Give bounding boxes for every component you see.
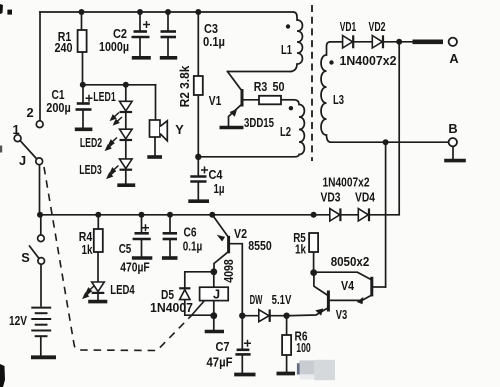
node V2 emitter	[209, 212, 215, 218]
wire C5 lower lead	[141, 240, 143, 257]
wire lower +12V rail y215 with VD3 VD4	[40, 214, 399, 216]
LED1 arrows	[111, 113, 122, 125]
svg-text:3DD15: 3DD15	[244, 115, 274, 130]
node A junction	[396, 39, 402, 45]
wire V2 collector to relay node	[214, 252, 229, 272]
svg-text:0.1µ: 0.1µ	[183, 239, 203, 254]
phase dot L3	[329, 60, 333, 64]
ground V1 emitter	[220, 126, 244, 130]
wire speaker ground lead	[154, 137, 156, 156]
svg-text:VD1: VD1	[340, 19, 357, 34]
wire R2 branch: rail down through R2 to node	[197, 12, 199, 157]
wire R4 bottom lead to LED4	[97, 252, 99, 282]
wire V2 emitter slant	[212, 215, 228, 238]
svg-text:5.1V: 5.1V	[272, 292, 292, 307]
terminal A circle	[449, 38, 457, 46]
ground speaker	[147, 155, 162, 159]
transistor V3 8050	[316, 291, 328, 315]
node relay top	[210, 268, 217, 275]
svg-text:2: 2	[26, 105, 33, 120]
transformer L3 secondary winding	[321, 42, 343, 142]
svg-text:VD2: VD2	[369, 19, 386, 34]
svg-text:1: 1	[12, 122, 19, 137]
zener DW 5.1V	[259, 310, 270, 322]
node LED chain top	[123, 82, 129, 88]
wire LED chain vertical	[125, 85, 127, 184]
svg-text:1N4007x2: 1N4007x2	[340, 53, 397, 68]
phase dot L1	[286, 24, 290, 28]
relay slash solid	[192, 294, 211, 315]
LED3	[120, 159, 133, 170]
wire LED rail y85	[83, 84, 156, 86]
wire speaker drop	[155, 85, 157, 120]
svg-text:1k: 1k	[295, 242, 307, 257]
node R4 top	[95, 212, 101, 218]
capacitor C1 200u plates	[76, 95, 93, 110]
node R2 bottom / C4	[195, 154, 201, 160]
node DW right R6	[283, 313, 289, 319]
wire R4 top lead	[97, 215, 99, 229]
svg-text:VD4: VD4	[355, 190, 376, 205]
wire C6 lower lead	[169, 240, 171, 257]
node C3 top	[165, 9, 171, 15]
svg-text:DW: DW	[250, 292, 263, 307]
ground C6	[162, 256, 178, 260]
node R5 bottom	[310, 269, 317, 276]
wire R3 right lead into L2	[281, 99, 294, 101]
node lower rail at J/S	[37, 212, 43, 218]
svg-text:47µF: 47µF	[207, 355, 233, 370]
svg-text:1N4007x2: 1N4007x2	[323, 175, 370, 190]
transistor V4 8050	[358, 277, 372, 304]
svg-text:8050x2: 8050x2	[331, 254, 370, 269]
svg-text:L2: L2	[280, 124, 291, 139]
relay coil box J	[200, 287, 229, 300]
diode VD3	[330, 208, 341, 221]
phase dot L2	[289, 106, 293, 110]
svg-text:Y: Y	[175, 122, 184, 137]
node relay bottom	[210, 312, 217, 319]
node B wire junction	[383, 139, 389, 145]
svg-text:200µ: 200µ	[46, 100, 71, 115]
transformer core dashed line	[311, 5, 313, 161]
transistor V1 3DD15	[231, 89, 243, 116]
svg-text:V1: V1	[209, 93, 222, 108]
ground LED3 chain	[117, 183, 135, 187]
resistor R3 50	[259, 96, 281, 105]
resistor R4 1k	[94, 229, 103, 252]
resistor R2 3.8k	[194, 76, 203, 95]
svg-text:100: 100	[296, 340, 311, 355]
diode VD1	[343, 35, 354, 48]
ground C5	[132, 256, 152, 260]
LED2	[120, 129, 133, 140]
svg-text:1000µ: 1000µ	[99, 39, 129, 54]
wire C6 lead	[169, 215, 171, 232]
ground C4	[188, 199, 209, 203]
switch J contact 2 circle	[36, 121, 43, 128]
wire R6 top lead	[286, 316, 288, 335]
capacitor C4 1u plates	[190, 167, 208, 182]
wire V1 base to R3	[242, 99, 259, 101]
wire C2 lead	[139, 12, 141, 31]
ground battery	[31, 355, 56, 359]
wire R1 top lead	[81, 12, 83, 30]
svg-text:12V: 12V	[9, 313, 27, 328]
svg-text:A: A	[449, 51, 458, 66]
wire V3 emitter from DW node	[287, 308, 328, 316]
wire R6 bottom lead	[286, 355, 288, 372]
diode D5 1N4007	[179, 288, 190, 299]
resistor R1 240	[78, 30, 87, 52]
wire S to battery	[40, 264, 42, 306]
wire J pole vertical down to lower rail	[39, 165, 41, 215]
resistor R6 100	[282, 335, 291, 355]
node R1 top	[79, 9, 85, 15]
svg-text:LED3: LED3	[79, 162, 102, 177]
svg-text:L3: L3	[333, 92, 344, 107]
svg-text:B: B	[448, 121, 457, 136]
wire C3 lower lead to ground	[167, 38, 169, 57]
svg-text:0.1µ: 0.1µ	[203, 34, 225, 49]
wire D5 branch top	[185, 272, 214, 287]
COMPONENTS	[291, 5, 343, 161]
node R1/C1/LED rail	[80, 82, 86, 88]
ground C3	[160, 56, 177, 60]
wire node down to V3 collector	[314, 273, 327, 295]
diode VD4	[358, 208, 369, 221]
wire battery bottom lead	[40, 337, 42, 356]
capacitor C3 0.1u plates	[161, 32, 177, 38]
svg-text:V3: V3	[336, 307, 348, 322]
svg-text:J: J	[213, 287, 220, 302]
switch J pole circle	[36, 158, 43, 165]
ground C2	[132, 56, 151, 60]
ground R6	[277, 372, 296, 376]
switch J blade	[20, 141, 37, 159]
wire A junction vertical down to VD4 line	[398, 42, 400, 215]
wire C5 lead	[141, 215, 143, 232]
wire R1 bottom lead to LED rail	[82, 52, 84, 85]
terminal A thick bar	[413, 39, 444, 44]
wire LED4 cathode to ground	[97, 293, 99, 300]
LED1	[120, 101, 133, 112]
LED2 arrows	[106, 138, 117, 150]
node R2 top	[195, 9, 201, 15]
node C5 top	[139, 212, 145, 218]
svg-text:1N4007: 1N4007	[150, 300, 193, 315]
svg-text:4098: 4098	[221, 259, 236, 283]
wire DW line	[242, 315, 286, 317]
capacitor C7 47uF plates	[235, 340, 251, 355]
switch S top circle	[38, 235, 45, 242]
svg-text:V2: V2	[234, 226, 247, 241]
diode VD2	[372, 35, 383, 48]
battery 12V	[31, 308, 51, 337]
transformer L1 winding	[291, 12, 302, 72]
wire R5 bottom lead to node	[313, 252, 315, 273]
svg-text:C4: C4	[209, 167, 224, 182]
wire C3 lead	[167, 12, 169, 31]
terminal B circle	[449, 138, 457, 146]
wire coil box bottom to ground node	[213, 301, 215, 316]
wire top +12V rail	[40, 11, 293, 13]
svg-text:50: 50	[273, 79, 285, 94]
wire C7 lower lead	[241, 356, 243, 373]
node DW left	[239, 313, 245, 319]
wire V1 collector slant	[228, 72, 243, 92]
wire node to V4 base	[314, 272, 372, 280]
transistor V2 8550	[218, 236, 229, 254]
capacitor C2 1000u plates	[132, 21, 151, 37]
svg-text:470µF: 470µF	[120, 260, 150, 275]
wire C7 lead	[241, 316, 243, 348]
svg-text:V4: V4	[341, 278, 355, 293]
switch S blade	[29, 245, 39, 258]
wire V1 emitter slant	[229, 104, 243, 126]
wire B ground lead	[452, 146, 454, 158]
svg-text:R3: R3	[254, 79, 268, 94]
resistor R5 1k	[309, 233, 318, 252]
transformer L2 winding	[294, 100, 304, 157]
wire V2 base right then down to DW node	[230, 244, 243, 316]
ground C1	[75, 128, 93, 132]
wire C1 upper lead	[82, 85, 84, 103]
wire L1 bottom horizontal to V1 collector	[228, 71, 292, 73]
svg-text:R2 3.8k: R2 3.8k	[177, 65, 192, 107]
wire relay node to coil box	[213, 272, 215, 287]
wire secondary bottom line y142 to B	[331, 141, 449, 143]
svg-text:8550: 8550	[248, 238, 272, 253]
svg-text:J: J	[19, 153, 26, 168]
svg-text:C5: C5	[119, 241, 132, 256]
switch S bottom circle	[38, 258, 45, 265]
svg-text:240: 240	[55, 40, 73, 55]
speaker Y	[150, 120, 168, 141]
wire V4 collector	[372, 286, 386, 288]
node C2 top	[137, 9, 143, 15]
wire top-left vertical to J contact 2	[39, 12, 41, 121]
wire B junction vertical down to V4 collector	[385, 142, 387, 287]
node R5 top	[311, 212, 317, 218]
LED3 arrows	[108, 166, 119, 178]
capacitor C5 470uF plates	[133, 224, 151, 239]
wire lower rail to S	[40, 215, 42, 235]
wire V4 emitter to V3	[330, 295, 372, 300]
svg-text:LED1: LED1	[93, 89, 115, 104]
ground terminal B	[444, 159, 466, 163]
svg-text:C6: C6	[184, 225, 197, 240]
switch J contact 1 circle	[14, 135, 21, 142]
node C6 top	[167, 212, 173, 218]
ground relay	[205, 330, 224, 334]
mechanical link dashed J relay	[44, 167, 192, 351]
wire C1 lower lead	[82, 111, 84, 128]
wire VD1 VD2 output line y42	[330, 41, 412, 43]
wire relay ground lead	[213, 316, 215, 330]
svg-text:S: S	[21, 250, 30, 265]
ground C7	[234, 373, 255, 377]
svg-text:LED4: LED4	[110, 282, 135, 297]
wire feedback horizontal y157 to L2 bottom	[198, 156, 293, 158]
LED4	[92, 282, 105, 293]
wire C4 lower lead	[197, 183, 199, 200]
svg-text:1k: 1k	[82, 242, 94, 257]
wire D5 branch bottom	[185, 300, 214, 315]
capacitor C6 0.1u plates	[163, 233, 177, 239]
ground LED4	[88, 300, 107, 304]
wire C2 lower lead to ground	[139, 38, 141, 57]
svg-text:1µ: 1µ	[214, 181, 225, 196]
svg-text:VD3: VD3	[321, 190, 341, 205]
svg-text:L1: L1	[281, 42, 292, 57]
LED4 arrows	[84, 286, 95, 298]
wire node to C4	[197, 157, 199, 176]
svg-text:C7: C7	[216, 339, 230, 354]
svg-text:LED2: LED2	[80, 135, 102, 150]
